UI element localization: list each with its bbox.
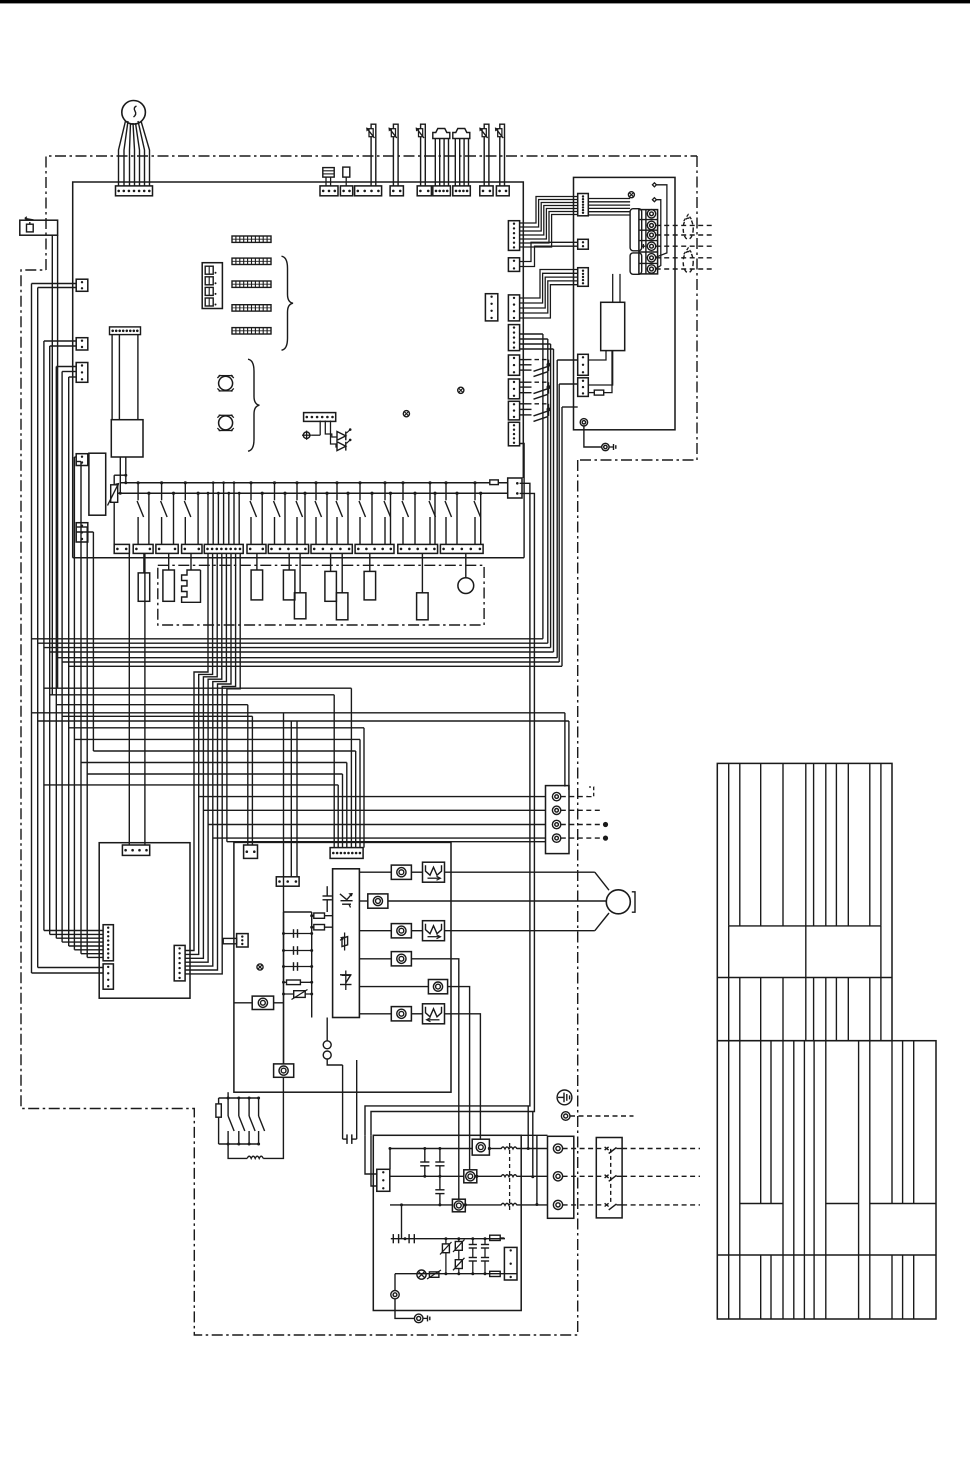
- 63H lead wires: [51, 235, 53, 695]
- compressor motor MC: [606, 890, 630, 914]
- solenoid valve coil 21S4a: [330, 553, 332, 571]
- output connector CN29: [355, 544, 394, 553]
- bus end connector CN49: [508, 478, 522, 498]
- fuse F1 on bus feed: [114, 474, 126, 476]
- sub assembly connector CNS1 (7pin): [578, 194, 589, 216]
- connector CN34: [76, 454, 88, 466]
- surge bus risers: [401, 1205, 403, 1239]
- aux output 3 wire: [444, 1014, 480, 1140]
- balance resistor R82: [312, 926, 333, 928]
- 4-way valve coil 21S4: [465, 553, 467, 577]
- junction dots surge bus: [404, 1237, 407, 1240]
- connector CN44 (5pin): [508, 325, 519, 351]
- phase output W: overload relay: [412, 930, 423, 932]
- relay output connector CN48: [508, 401, 519, 420]
- surge absorber bus upper: [391, 1238, 505, 1240]
- wires CN41 to CNS1: [520, 197, 578, 224]
- LED D2: [331, 421, 338, 448]
- connector tab: [223, 938, 236, 943]
- inverter logic connector CN83: [237, 934, 249, 947]
- inverter connector CN82 (3pin): [276, 877, 299, 886]
- main control PCB outline: [73, 182, 524, 558]
- inverter power PCB outline: [234, 842, 451, 1092]
- connector CN35: [76, 523, 88, 542]
- relay contact switches to output connectors: [137, 481, 140, 484]
- sub assembly connector CNS2: [578, 239, 589, 249]
- fuse FR: [501, 1147, 517, 1149]
- output connector CN21: [114, 544, 129, 553]
- phase line R: [390, 1148, 472, 1150]
- output connector CN26: [247, 544, 266, 553]
- power block IC1: [89, 453, 106, 515]
- right harness verticals (PCB to sub assembly): [520, 333, 543, 335]
- connector CN47 (spare): [485, 294, 497, 321]
- connector CN32: [76, 338, 88, 350]
- reactor output connector CNO (8pin): [174, 945, 185, 981]
- phase output U: overload relay: [412, 871, 423, 873]
- direct feeds from lower bus: [147, 492, 150, 495]
- relay wires to connectors: [588, 351, 606, 360]
- bus feed wires: [119, 457, 121, 493]
- contactor operating coil: [228, 1144, 247, 1158]
- output connector CN25 (8pin): [204, 544, 243, 553]
- central harness from CN25 to reactor: [185, 553, 208, 950]
- riser wires to inverter connector CN81: [247, 705, 249, 845]
- compressor power terminal block TB2: [546, 786, 570, 854]
- left harness verticals: [32, 283, 77, 285]
- relay contact symbol at CN46: [520, 381, 527, 383]
- wires CN42 to CNS2: [520, 242, 578, 261]
- connector CN3: [340, 186, 352, 196]
- TB3 dashed leads to breaker: [563, 1148, 597, 1150]
- power feed wires L/N down right side: [365, 483, 530, 1135]
- wires bus to CN25: [207, 493, 209, 544]
- output connector CN30B: [440, 544, 483, 553]
- thermistor TH3: [421, 124, 426, 186]
- field cable sheath ellipse lower: [683, 252, 693, 273]
- noise filter earth wire: [395, 1299, 414, 1319]
- aux output 3: CT: [359, 1013, 391, 1015]
- fan motor connector CN-FM: [116, 186, 153, 196]
- connector CNTH4: [480, 186, 493, 196]
- aux output 3: overload relay: [412, 1013, 423, 1015]
- relay drive bus lower: [110, 492, 508, 494]
- pressure switch 63H: [20, 220, 58, 235]
- pin diamond A: [652, 183, 656, 187]
- legend table upper: [717, 763, 892, 1040]
- reactor internal connector CNI1 (8pin): [103, 925, 113, 961]
- phase output V: CT: [359, 900, 367, 902]
- relay contacts RY-DC: [323, 1041, 331, 1049]
- sub assembly connector CNS4: [578, 354, 589, 375]
- output connector CN23: [156, 544, 178, 553]
- reactor connector CNL (4pin): [122, 845, 149, 855]
- solenoid valve coil SV1: [168, 553, 170, 570]
- phase output U: CT: [359, 871, 391, 873]
- output connector CN30: [398, 544, 438, 553]
- thermistor TH6: [500, 124, 505, 186]
- pressure sensor 63HS: [433, 129, 450, 139]
- power drops from L/N rails to phase lines: [527, 1106, 529, 1149]
- harness wires to compressor power terminal: [32, 712, 565, 714]
- resistor R-S1: [588, 392, 594, 394]
- noise filter chassis stud: [414, 1314, 423, 1323]
- fuse F12: [490, 1271, 501, 1276]
- noise filter PCB outline: [373, 1135, 521, 1310]
- solenoid valve coil SV4 (lower): [299, 553, 301, 592]
- film capacitor C10: [342, 1065, 344, 1139]
- fuse FT: [501, 1203, 517, 1205]
- solenoid valve coil SV6 (lower): [421, 553, 423, 592]
- breaker dashed output leads: [622, 1148, 700, 1150]
- LED status connector CN-LED: [304, 413, 336, 422]
- surge absorber bus lower: [395, 1273, 517, 1275]
- relay wires to terminal block: [612, 274, 614, 302]
- fuse FS: [501, 1175, 517, 1177]
- smoothing capacitor C3: [284, 950, 312, 952]
- buzzer BZ2: [219, 416, 233, 430]
- smoothing capacitor C4: [284, 966, 312, 968]
- relay contact symbol at CN45: [520, 359, 527, 361]
- sub assembly connector CNS3 (5pin): [578, 268, 589, 287]
- IPM diode symbol lower: [345, 971, 347, 991]
- cross harness horizontals: [44, 687, 352, 689]
- solenoid valve coil 21S4b (lower): [341, 553, 343, 592]
- connector CN41 (6pin): [508, 221, 519, 251]
- DIP switch block SW1-SW4: [202, 263, 222, 309]
- breaker trip link (dashed): [610, 1149, 612, 1205]
- pressure sensor 63LS: [453, 129, 470, 139]
- IPM IGBT symbol upper: [340, 894, 347, 900]
- relay MRY1 on sub assembly: [601, 302, 625, 350]
- filter capacitors CF2: [439, 1149, 441, 1163]
- connector CN2 (2pin): [320, 186, 338, 196]
- wires CN43 to CNS3: [520, 270, 578, 299]
- earth wire to chassis stud: [584, 426, 602, 447]
- earth screw on sub assembly: [580, 419, 587, 426]
- pin header comb CN55: [232, 328, 271, 334]
- IPM thyristor symbol middle: [344, 933, 346, 951]
- connector CN50: [508, 422, 519, 446]
- phase junction dots: [488, 1147, 491, 1150]
- connector CN43: [508, 295, 519, 321]
- output connector CN22: [133, 544, 153, 553]
- connector CN5: [390, 186, 403, 196]
- solenoid valve coil SV2: [256, 553, 258, 570]
- pin diamond B: [652, 198, 656, 202]
- phase U wire to compressor: [444, 871, 594, 873]
- polarity mark at terminal 4: [642, 244, 644, 248]
- field wiring dashed leads: [656, 224, 714, 226]
- smoothing capacitor C2: [284, 933, 312, 935]
- connector CN33: [76, 363, 88, 383]
- film capacitor C10 second lead: [356, 1060, 358, 1139]
- filter capacitors CF1: [424, 1149, 426, 1163]
- TB2 dashed field leads: [561, 796, 588, 798]
- inverter test point: [257, 964, 263, 970]
- solenoid valve coil SV3: [288, 553, 290, 570]
- terminal block bracket upper: [630, 209, 642, 251]
- line current sensor CT1: [472, 1139, 489, 1155]
- wire CN44 to PCB bottom rail: [520, 444, 525, 558]
- phase R riser to CNF: [389, 1149, 391, 1170]
- noise filter connector CNF (3pin): [377, 1169, 390, 1191]
- test point TP2: [458, 387, 464, 393]
- current sensor CT-L: [274, 1064, 294, 1077]
- phase line S: [390, 1175, 464, 1177]
- reactor / filter block DCL: [99, 843, 190, 999]
- power source terminal block TB3: [548, 1136, 574, 1218]
- earth leakage breaker ELB: [596, 1138, 622, 1218]
- legend table lower: [717, 1041, 936, 1319]
- connector CN31: [76, 279, 88, 291]
- crankcase heater / valve load group boundary (dash-dot): [158, 565, 484, 625]
- relay contact symbol at CN48: [520, 403, 527, 405]
- photo-coupler PC1: [303, 432, 310, 439]
- relay output connector CN45: [508, 355, 519, 375]
- capacitor CY1: [472, 1239, 474, 1245]
- branch wires to inverter connector CN82: [290, 721, 292, 877]
- transformer T1 wires: [111, 335, 113, 420]
- connector CN6: [417, 186, 431, 196]
- varistor NR3: [458, 1250, 460, 1259]
- current sensor CT-DC: [234, 1002, 252, 1004]
- relay output connector CN46: [508, 379, 519, 399]
- chassis earth stud: [602, 443, 609, 450]
- aux output 2 wire: [448, 987, 470, 1170]
- solenoid valve coil SV5: [369, 553, 371, 571]
- outdoor unit enclosure boundary (dash-dot): [46, 156, 697, 270]
- main PCB right edge lower segment: [522, 450, 524, 478]
- crank case heater CH (notched): [190, 553, 192, 570]
- LED D1: [325, 421, 337, 438]
- IPM power module: [333, 869, 360, 1018]
- inverter connector CN81 (2pin): [244, 845, 258, 858]
- pin header comb CN52: [232, 258, 271, 264]
- filter output connector CNX: [504, 1247, 517, 1280]
- output connector CN28: [311, 544, 352, 553]
- varistor NR2: [458, 1239, 460, 1242]
- jumper plug J2: [343, 167, 350, 177]
- test screw on sub assembly: [628, 192, 634, 198]
- line current sensor CT3: [452, 1199, 465, 1212]
- phase output W: CT: [359, 930, 391, 932]
- inverter connector CN80 (8pin): [330, 848, 363, 859]
- output connector CN27: [268, 544, 308, 553]
- brace group A: [282, 256, 294, 350]
- terminal block bracket lower: [630, 253, 642, 274]
- output connector CN24: [182, 544, 202, 553]
- brace group B: [248, 359, 259, 451]
- discharge resistor R83: [284, 981, 312, 983]
- L/N feed into CNF: [365, 1135, 377, 1174]
- power terminal feed wires: [199, 796, 546, 798]
- pin header comb CN53: [232, 281, 271, 287]
- relay drive bus upper: [120, 482, 508, 484]
- sub assembly connector CNS5: [578, 378, 589, 397]
- aux output 1: CT: [359, 958, 391, 960]
- wires CN22 to reactor block connector: [128, 553, 130, 845]
- phase line T: [390, 1204, 452, 1206]
- noise filter earth screw: [391, 1291, 399, 1299]
- fan motor MF2 (cooling fan): [417, 1270, 426, 1279]
- phase W wire to compressor: [444, 930, 594, 932]
- series capacitors on bus: [392, 1234, 394, 1243]
- main PCB bottom edge: [73, 557, 524, 559]
- field cable sheath ellipse upper: [683, 218, 693, 239]
- connector CN42: [508, 258, 519, 272]
- capacitor CY2: [484, 1239, 486, 1245]
- contactor fuse: [218, 1098, 220, 1104]
- pin header comb CN51: [232, 236, 271, 242]
- fan motor lead wires: [119, 121, 126, 186]
- connector CN63HS: [433, 186, 451, 196]
- buzzer BZ1: [219, 376, 233, 390]
- dc link capacitor C1: [326, 886, 328, 896]
- connector CN40 (8pin): [110, 327, 141, 335]
- aux output 2: CT: [359, 986, 428, 988]
- aux output 1 wire: [412, 959, 459, 1199]
- fuse dashed gang bar: [509, 1143, 511, 1210]
- fan motor MF: [122, 101, 146, 125]
- branch wire to inverter dc rail: [283, 713, 285, 1064]
- thermal switch on fan: [429, 1272, 439, 1277]
- connector CN63LS: [453, 186, 471, 196]
- thermistor TH4: [484, 124, 489, 186]
- inverter earth symbol: [557, 1090, 572, 1105]
- inverter internal rails: [283, 912, 285, 1064]
- sub assembly internal wires: [588, 198, 630, 200]
- connector CN4 (4pin): [355, 186, 382, 196]
- left harness stubs into reactor connectors: [32, 972, 104, 974]
- magnetic contactor MS assembly: [227, 1092, 229, 1098]
- solenoid valve coil SV0: [143, 553, 145, 573]
- transformer T1: [111, 420, 143, 457]
- bus sensing resistor R0: [490, 480, 499, 485]
- varistor NR1: [445, 1239, 447, 1244]
- reactor internal connector CNI2 (4pin): [103, 964, 113, 989]
- balance resistor R81: [312, 915, 333, 917]
- jumper plug J1: [323, 168, 334, 178]
- connector CNTH6: [496, 186, 509, 196]
- earth stud with dashed lead: [561, 1112, 570, 1121]
- line current sensor CT2: [464, 1170, 477, 1183]
- thermistor TH1 (discharge): [371, 124, 376, 186]
- terminal sub assembly board outline: [574, 177, 676, 429]
- field terminal block TB1: [639, 210, 658, 274]
- pin header comb CN54: [232, 305, 271, 311]
- phase V wire to compressor: [388, 900, 606, 902]
- test point TP1: [403, 411, 409, 417]
- riser wires to inverter connector CN80: [350, 688, 352, 847]
- thermistor TH-INV: [284, 993, 312, 995]
- fuse F11: [490, 1235, 501, 1240]
- thermistor TH2: [393, 124, 398, 186]
